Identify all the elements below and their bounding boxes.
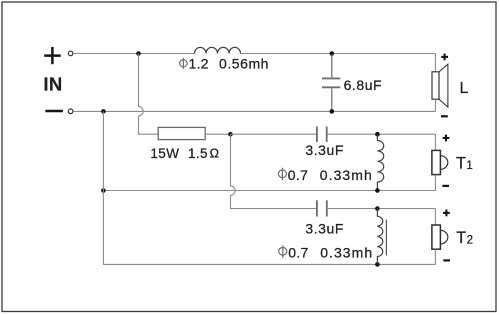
resistor R1 [158,127,205,139]
junction dot minus left [101,109,106,114]
wire T2 feed with hop [231,134,317,208]
wire T2 feed down [434,209,436,226]
wire T1 bottom rail [103,190,435,192]
T1 minus label [442,185,449,187]
capacitor C3 3.3uF [317,200,327,216]
svg-text:15W: 15W [150,146,179,161]
speaker L feed bottom [434,99,436,111]
speaker L feed top [434,54,436,72]
inductor L1 value label [180,56,269,72]
wire T1 row right [328,133,436,135]
wire top rail left [73,53,194,55]
svg-text:T: T [456,154,466,172]
minus input symbol [45,110,63,113]
wire plus feed with hop [139,54,159,135]
svg-text:Ω: Ω [210,147,219,161]
junction dot resistor out [228,132,233,137]
svg-text:0.7: 0.7 [288,167,308,183]
capacitor C2 3.3uF [317,127,327,142]
wire T2 row right [328,208,436,210]
inductor L1 [195,47,241,53]
wire resistor to junction [205,133,230,135]
tweeter T1 [432,150,448,174]
svg-text:0.33mh: 0.33mh [320,167,373,183]
svg-text:3.3uF: 3.3uF [305,220,344,236]
capacitor C1 6.8uF [322,54,340,112]
L minus label [441,115,448,117]
T2 name label [456,229,473,247]
junction dot left rail [101,188,106,193]
svg-text:1.2: 1.2 [189,56,209,72]
svg-text:3.3uF: 3.3uF [305,142,344,158]
svg-text:0.33mh: 0.33mh [320,244,373,260]
inductor L3 value label [279,244,373,260]
speaker L [432,64,448,107]
wire T1 row left [231,133,317,135]
inductor L2 value label [278,167,372,183]
junction dot T1 top [375,132,380,137]
svg-text:0.56mh: 0.56mh [219,56,269,72]
svg-text:L: L [460,80,469,97]
T1 plus label [443,135,450,142]
junction dot T1 bottom [375,188,380,193]
wire minus rail [73,110,435,112]
svg-text:0.7: 0.7 [288,244,308,260]
terminal - [68,109,73,114]
inductor L2 [377,134,383,190]
plus input symbol [44,47,61,64]
wire T1 bottom feed [434,175,436,191]
wire top rail right [241,53,436,55]
inductor L3 [377,209,382,265]
junction dot top feed [136,51,141,56]
junction dot T2 bottom [375,262,380,267]
T1 name label [456,154,473,172]
svg-text:2: 2 [467,235,473,247]
terminal + [68,51,73,56]
T2 plus label [443,210,450,217]
svg-text:6.8uF: 6.8uF [344,77,383,93]
svg-text:T: T [456,229,466,247]
junction dot top cap [330,51,335,56]
tweeter T2 [432,225,448,249]
svg-text:1.5: 1.5 [188,146,208,161]
svg-text:IN: IN [43,73,62,94]
wire T2 bottom feed [434,249,436,264]
wire left vertical and bottom rail [103,111,435,264]
wire T1 feed down [434,134,436,150]
L plus label [441,54,448,61]
svg-text:1: 1 [466,160,472,172]
inductor L3 core line [385,220,387,256]
junction dot minus cap [330,109,335,114]
resistor R1 value label [150,146,219,161]
junction dot T2 top [375,206,380,211]
T2 minus label [443,259,450,261]
